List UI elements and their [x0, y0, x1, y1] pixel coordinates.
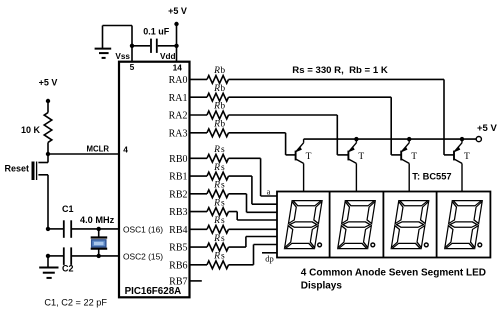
- svg-text:a: a: [267, 187, 271, 197]
- svg-text:RB1: RB1: [169, 172, 187, 183]
- svg-text:R: R: [213, 145, 220, 155]
- svg-text:RB0: RB0: [169, 154, 187, 165]
- svg-text:C1, C2 = 22 pF: C1, C2 = 22 pF: [44, 298, 107, 308]
- svg-text:14: 14: [173, 63, 183, 73]
- svg-text:4: 4: [123, 145, 128, 155]
- svg-text:RA3: RA3: [169, 128, 188, 139]
- svg-text:Vdd: Vdd: [160, 52, 175, 61]
- svg-text:RA1: RA1: [169, 93, 188, 104]
- svg-text:RB7: RB7: [169, 277, 187, 288]
- svg-text:T: T: [306, 152, 312, 162]
- svg-text:OSC1 (16): OSC1 (16): [123, 225, 163, 235]
- svg-text:R: R: [213, 66, 220, 76]
- svg-text:R: R: [213, 102, 220, 112]
- svg-text:b: b: [220, 84, 225, 94]
- svg-text:10 K: 10 K: [21, 125, 41, 135]
- svg-text:Reset: Reset: [4, 164, 29, 174]
- svg-text:RB3: RB3: [169, 207, 187, 218]
- svg-text:RA0: RA0: [169, 75, 188, 86]
- svg-text:R: R: [213, 120, 220, 130]
- svg-text:4.0 MHz: 4.0 MHz: [80, 215, 115, 225]
- svg-text:+5 V: +5 V: [168, 6, 187, 16]
- svg-text:T: BC557: T: BC557: [412, 171, 451, 181]
- svg-text:Rs = 330 R, Rb = 1 K: Rs = 330 R, Rb = 1 K: [292, 65, 388, 76]
- svg-text:OSC2 (15): OSC2 (15): [123, 251, 163, 261]
- svg-text:C2: C2: [62, 264, 74, 274]
- svg-text:T: T: [358, 152, 364, 162]
- svg-text:5: 5: [130, 62, 135, 72]
- svg-text:b: b: [220, 102, 225, 112]
- svg-text:PIC16F628A: PIC16F628A: [125, 286, 182, 297]
- svg-text:R: R: [213, 216, 220, 226]
- svg-text:Vss: Vss: [115, 52, 130, 61]
- svg-text:4 Common Anode Seven Segment L: 4 Common Anode Seven Segment LED: [301, 267, 486, 278]
- svg-text:b: b: [220, 120, 225, 130]
- svg-text:b: b: [220, 66, 225, 76]
- svg-text:Displays: Displays: [301, 280, 343, 291]
- svg-text:RB6: RB6: [169, 260, 187, 271]
- svg-text:RB4: RB4: [169, 225, 187, 236]
- svg-text:R: R: [213, 163, 220, 173]
- svg-text:R: R: [213, 234, 220, 244]
- svg-text:C1: C1: [62, 204, 74, 214]
- svg-text:0.1 uF: 0.1 uF: [143, 26, 170, 36]
- svg-text:R: R: [213, 198, 220, 208]
- svg-text:T: T: [411, 152, 417, 162]
- svg-text:RA2: RA2: [169, 111, 188, 122]
- svg-text:RB2: RB2: [169, 189, 187, 200]
- svg-text:R: R: [213, 252, 220, 262]
- svg-text:+5 V: +5 V: [39, 78, 58, 88]
- svg-text:RB5: RB5: [169, 243, 187, 254]
- svg-text:dp: dp: [265, 254, 274, 264]
- svg-text:R: R: [213, 84, 220, 94]
- svg-text:+5 V: +5 V: [477, 123, 497, 134]
- svg-text:R: R: [213, 181, 220, 191]
- svg-text:T: T: [464, 152, 470, 162]
- svg-text:MCLR: MCLR: [86, 145, 109, 154]
